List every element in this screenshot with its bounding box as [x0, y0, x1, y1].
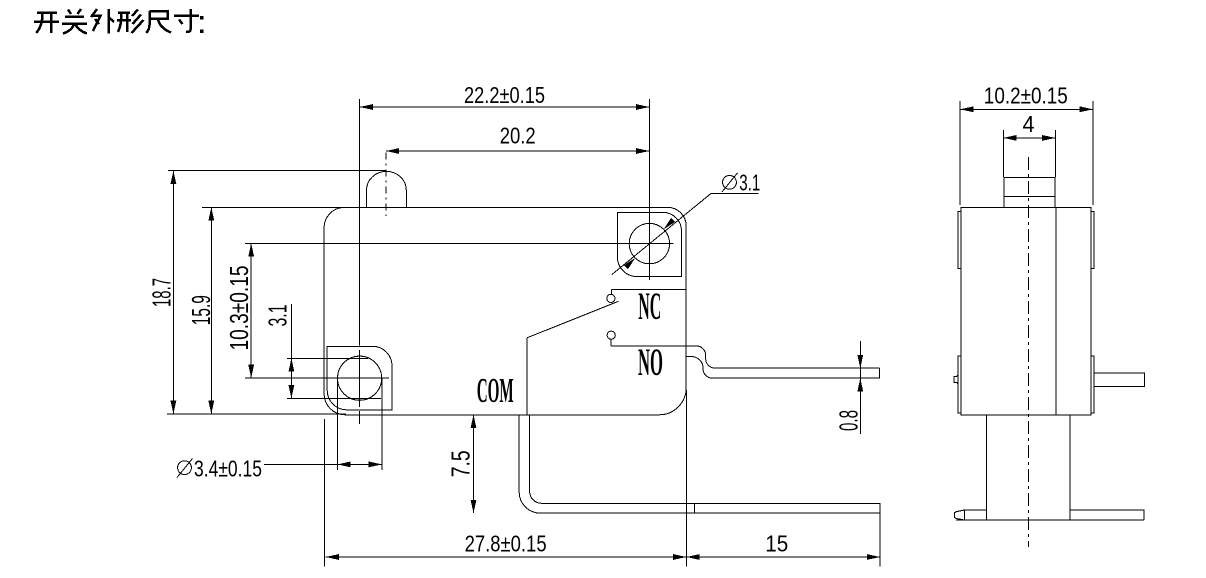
- boss bottom-left hole: [327, 346, 392, 410]
- switch body outline (main view): [324, 207, 686, 414]
- dim 3.1 extension top: [287, 357, 368, 359]
- svg-text:NC: NC: [638, 285, 661, 328]
- svg-text:10.2±0.15: 10.2±0.15: [984, 82, 1068, 108]
- svg-text:3.1: 3.1: [739, 169, 760, 195]
- dim 27.8 extension left: [324, 419, 326, 567]
- svg-text:10.3±0.15: 10.3±0.15: [224, 266, 254, 351]
- centerline horizontal top-right hole: [245, 242, 674, 244]
- svg-text:COM: COM: [477, 371, 514, 410]
- dim 10.3 line: [250, 243, 252, 378]
- lever pivot line COM: [526, 338, 528, 415]
- centerline vertical top-right hole: [648, 99, 650, 280]
- dim 4 extension right: [1054, 130, 1056, 177]
- svg-text:NO: NO: [638, 341, 663, 384]
- dim 18.7 extension top: [168, 170, 385, 172]
- dim 27.8 line: [326, 556, 687, 558]
- dim 15 extension right: [879, 514, 881, 567]
- svg-text:3.4±0.15: 3.4±0.15: [194, 455, 262, 481]
- lever arm diagonal: [527, 301, 619, 338]
- svg-text:20.2: 20.2: [500, 122, 536, 148]
- dim 4 extension left: [1002, 130, 1004, 177]
- dim 10.2 line: [960, 108, 1093, 110]
- leader O3.1 diagonal: [612, 193, 711, 274]
- svg-text:22.2±0.15: 22.2±0.15: [464, 82, 545, 108]
- extension line bottom left: [167, 413, 346, 415]
- dim 18.7 line: [172, 171, 174, 414]
- side view left foot: [955, 510, 987, 520]
- boss top-right hole: [617, 212, 681, 276]
- centerline horizontal bottom-left hole: [245, 377, 389, 379]
- dim 3.1 line: [290, 304, 292, 398]
- extension line right of body: [685, 390, 687, 567]
- NO terminal lower edge: [686, 357, 880, 379]
- dim 4 line: [1003, 137, 1055, 139]
- side view feet bottom line: [956, 519, 1144, 521]
- dim 3.1 extension bottom: [287, 397, 381, 399]
- dim 10.2 extension left: [959, 101, 961, 205]
- side view body: [961, 207, 1091, 415]
- dim O3.4 line: [264, 463, 382, 465]
- svg-text:3.1: 3.1: [263, 305, 293, 327]
- button centerline: [385, 153, 387, 217]
- dim 15.9 extension top: [202, 206, 346, 208]
- centerline vertical bottom-left hole: [359, 99, 361, 346]
- dim 0.8 line: [859, 341, 861, 434]
- side view button: [1004, 178, 1055, 208]
- plunger button dome: [367, 171, 407, 207]
- hole circle bottom-left: [338, 356, 382, 400]
- svg-text:15.9: 15.9: [186, 295, 216, 325]
- COM terminal (L-bend): [519, 415, 880, 513]
- hole circle top-right: [629, 223, 669, 263]
- svg-text:4: 4: [1023, 111, 1035, 137]
- dim 7.5 line: [473, 415, 475, 513]
- dim text O3.1 diameter symbol: [723, 175, 737, 189]
- dim 10.2 extension right: [1092, 101, 1094, 205]
- side view left upper tab: [958, 212, 961, 269]
- COM terminal hidden seam tick: [693, 503, 695, 513]
- dim 15.9 line: [210, 207, 212, 414]
- dim O3.4 extension right: [381, 378, 383, 470]
- NC contact circle: [607, 294, 615, 302]
- dim text O3.4 diameter symbol: [178, 461, 192, 475]
- side view right lower tab: [1091, 356, 1094, 413]
- svg-text:18.7: 18.7: [146, 278, 176, 307]
- NC wire line: [611, 288, 686, 290]
- title text 开关外形尺寸:: [34, 9, 199, 34]
- side view NO terminal: [1094, 373, 1145, 387]
- side view left nub: [954, 374, 958, 384]
- NO contact tick: [610, 339, 612, 346]
- NO wire line: [611, 345, 686, 347]
- svg-text:15: 15: [765, 530, 788, 556]
- side view button step line: [1004, 195, 1055, 197]
- side view right upper tab: [1091, 212, 1094, 269]
- leader O3.1 horizontal: [711, 192, 758, 194]
- dim 22.2 line: [360, 106, 650, 108]
- title colon: [200, 16, 203, 19]
- side view centerline: [1028, 157, 1030, 547]
- side view left lower tab: [958, 356, 961, 413]
- side view inner edge line: [1055, 207, 1057, 415]
- svg-text:7.5: 7.5: [446, 450, 476, 477]
- dim 20.2 line: [386, 150, 649, 152]
- side view leg column: [986, 415, 988, 520]
- dim 15 line: [686, 556, 880, 558]
- NC contact tick: [610, 289, 612, 294]
- side view right foot: [1070, 510, 1144, 520]
- dim O3.4 extension left: [336, 378, 338, 470]
- NO contact circle: [607, 331, 615, 339]
- NO terminal (Z-bend) upper edge: [686, 346, 880, 368]
- svg-text:0.8: 0.8: [833, 410, 863, 431]
- svg-text:27.8±0.15: 27.8±0.15: [465, 530, 547, 556]
